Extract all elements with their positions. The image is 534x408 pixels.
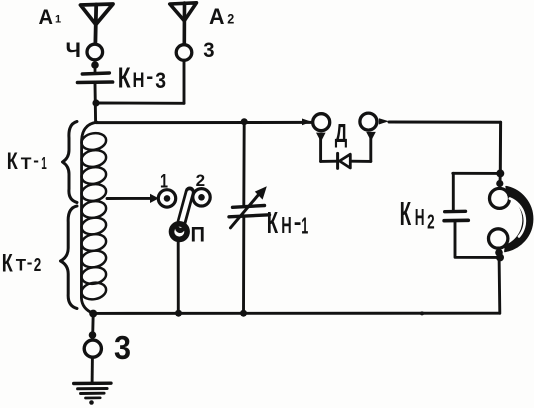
switch lever: [180, 192, 190, 229]
wire earpiece to bottom bus: [498, 250, 502, 313]
ground symbol: [74, 382, 111, 386]
node headphone top junction: [496, 169, 504, 177]
svg-text:К: К: [118, 62, 131, 94]
nub right of right circle: [379, 118, 389, 124]
switch contact 2: [193, 189, 210, 206]
label 2: [196, 171, 206, 190]
label A2: [209, 4, 234, 29]
label П: [191, 224, 206, 247]
terminal Ч (jack): [87, 44, 103, 60]
svg-text:Н: Н: [133, 69, 145, 92]
varcap upper wire: [242, 122, 245, 205]
brace Кт-1: [63, 122, 78, 203]
varcap arrow: [231, 194, 260, 228]
svg-text:1: 1: [41, 153, 47, 173]
label 3: [203, 38, 214, 62]
node varcap top: [241, 118, 248, 125]
label Кт-2: [2, 249, 42, 277]
svg-text:Н: Н: [281, 212, 292, 238]
svg-text:Ч: Ч: [66, 39, 82, 62]
top bus wire right: [389, 121, 501, 124]
node coil bottom: [89, 310, 97, 318]
diode terminal circle left: [313, 114, 330, 131]
headphones earpiece bottom: [489, 229, 508, 248]
diode terminal circle right: [360, 113, 377, 130]
svg-text:-: -: [146, 66, 153, 89]
svg-text:2: 2: [196, 171, 206, 190]
svg-text:2: 2: [227, 10, 234, 26]
svg-text:1: 1: [55, 14, 61, 26]
label A1: [39, 6, 62, 29]
nub below left circle: [316, 133, 326, 142]
node above ground jack: [89, 331, 97, 339]
wire right circle down: [369, 137, 372, 161]
node switch bottom: [175, 310, 182, 317]
headphones headband: [505, 187, 533, 252]
wire pivot down: [177, 240, 180, 313]
switch pivot: [172, 224, 188, 240]
svg-text:К: К: [7, 148, 18, 175]
label 1: [160, 171, 168, 192]
svg-text:1: 1: [160, 171, 168, 192]
wire left circle down: [319, 138, 322, 161]
varcap lower wire: [242, 218, 245, 313]
wire junction to earpiece: [498, 173, 501, 187]
svg-text:-: -: [27, 253, 33, 272]
coil Кт-2 winding loops: [80, 199, 107, 219]
svg-text:Д: Д: [335, 118, 348, 148]
label Кн2: [400, 195, 435, 234]
svg-text:А: А: [39, 6, 54, 29]
node varcap bottom: [240, 310, 247, 317]
node headphone bottom junction: [496, 253, 504, 261]
label Кн-1: [267, 205, 309, 240]
svg-text:1: 1: [301, 212, 308, 238]
svg-text:А: А: [209, 4, 225, 29]
brace Кт-2: [61, 206, 78, 309]
diode Д symbol: [336, 153, 339, 168]
switch contact 1: [158, 190, 175, 207]
node junction A: [92, 99, 99, 106]
wire jack to capacitor: [94, 65, 97, 72]
svg-text:Т: Т: [21, 154, 32, 173]
label Кн-3: [118, 62, 166, 94]
diode lower wire: [321, 160, 338, 163]
wire jack to ground: [91, 358, 94, 383]
nub below right circle: [366, 132, 376, 141]
antenna A1: [81, 4, 114, 25]
svg-text:К: К: [267, 205, 278, 240]
svg-text:-: -: [33, 151, 39, 170]
coil spine and top/bottom curves: [81, 122, 97, 313]
headphones earpiece top: [490, 188, 510, 208]
label З: [114, 329, 131, 366]
svg-text:Н: Н: [415, 204, 425, 230]
svg-text:2: 2: [34, 254, 42, 275]
svg-text:2: 2: [427, 212, 435, 234]
diode branch: left nub: [302, 119, 312, 126]
svg-text:Т: Т: [16, 256, 27, 275]
capacitor Кн-3: [82, 73, 109, 74]
wire A2 to junction: [96, 102, 184, 105]
svg-text:3: 3: [203, 38, 214, 62]
node on bottom bus: [420, 311, 424, 315]
bottom bus wire: [93, 312, 500, 315]
svg-text:К: К: [2, 249, 14, 277]
antenna A2: [170, 3, 197, 21]
svg-text:К: К: [400, 195, 412, 232]
terminal 3 (jack): [176, 45, 192, 61]
top bus wire left: [96, 121, 311, 124]
label Кт-1: [7, 148, 47, 175]
wire capacitor down to bus: [94, 84, 97, 122]
svg-text:3: 3: [114, 329, 131, 366]
label Д: [335, 118, 348, 148]
node dot below jack: [91, 61, 99, 69]
tap nub at contact 1: [150, 194, 159, 203]
capacitor Кн2 top wire: [453, 172, 501, 175]
label Ч: [66, 39, 82, 62]
svg-text:3: 3: [155, 68, 166, 93]
variable capacitor Кн-1 plates: [233, 206, 265, 208]
coil tap wire: [107, 197, 152, 200]
capacitor Кн2 bottom wire: [455, 222, 500, 257]
terminal З (ground jack): [84, 340, 101, 357]
right vertical wire: [499, 122, 502, 173]
svg-text:П: П: [191, 224, 206, 247]
wire A2 jack down: [183, 62, 186, 104]
capacitor Кн2 plates: [445, 210, 466, 214]
coil Кт-1 winding loops: [80, 131, 107, 151]
wire coil bottom to ground jack: [91, 314, 94, 339]
